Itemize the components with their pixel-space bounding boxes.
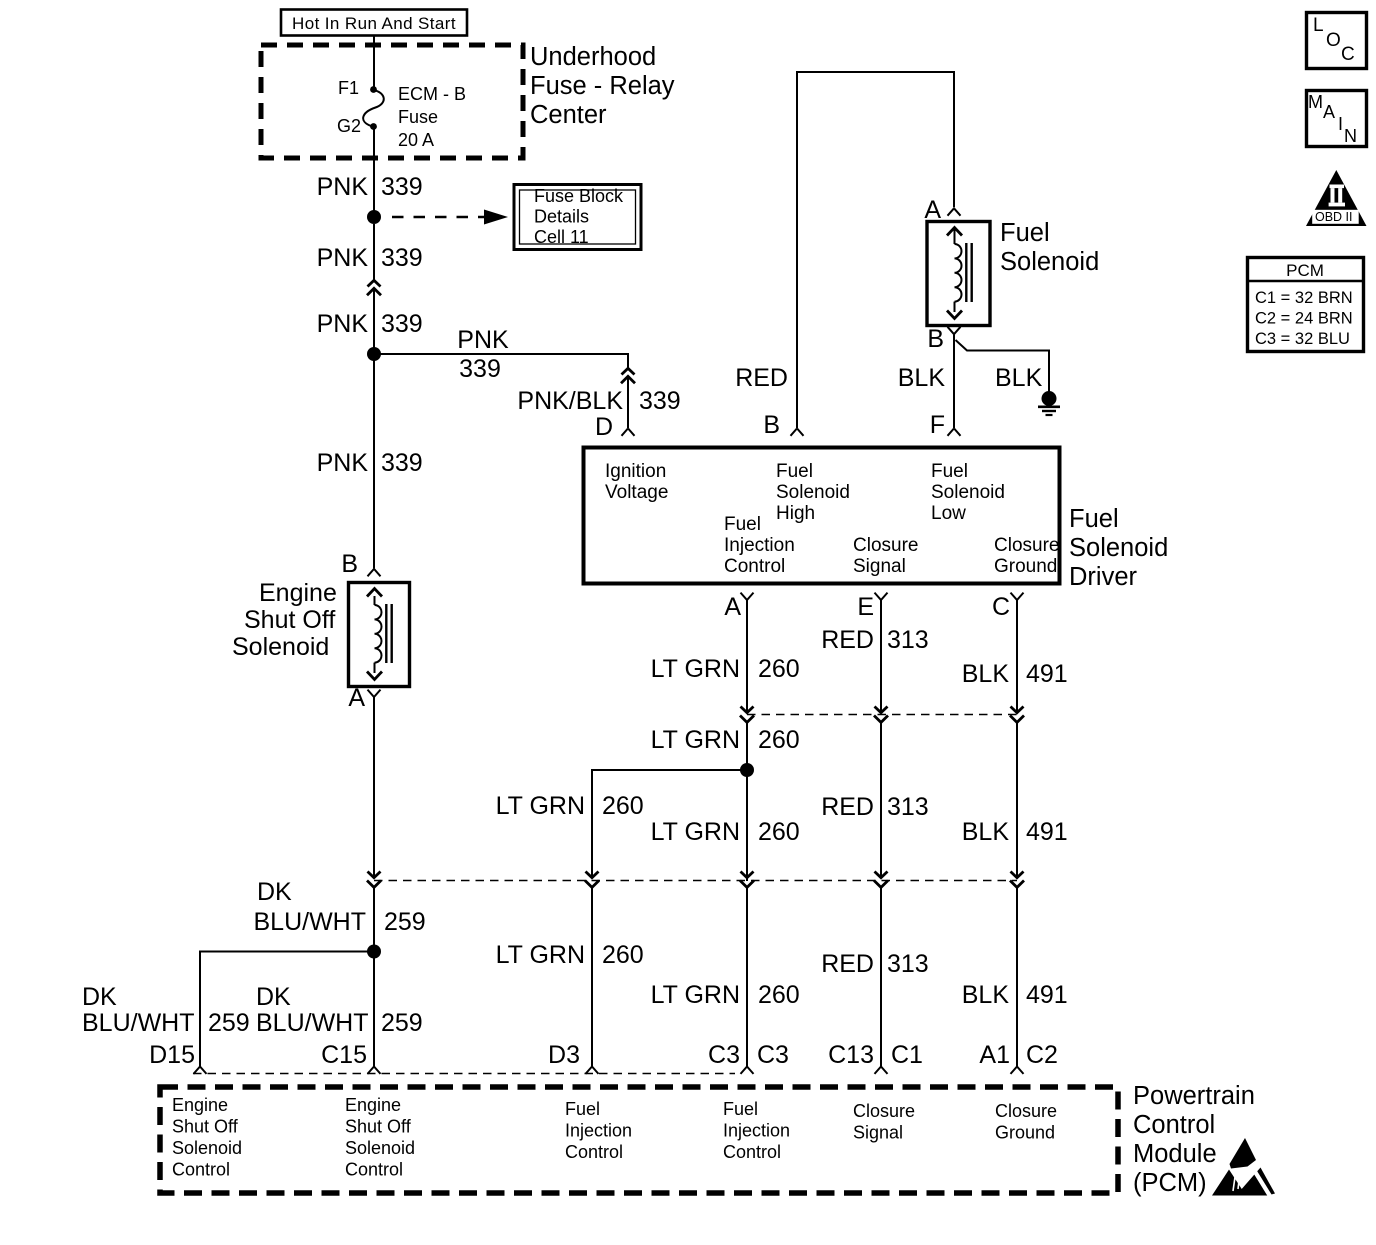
- svg-text:491: 491: [1026, 981, 1068, 1009]
- svg-text:BLU/WHT: BLU/WHT: [256, 1009, 369, 1037]
- value label DK BLU/WHT 259 (lower): [256, 983, 423, 1037]
- svg-text:Ignition: Ignition: [605, 461, 666, 482]
- svg-text:260: 260: [758, 981, 800, 1009]
- inline connector chevrons wire E: [874, 707, 888, 723]
- fuel solenoid FS1: [927, 222, 990, 326]
- svg-text:Ground: Ground: [994, 556, 1057, 577]
- node F1: [338, 78, 377, 98]
- inline connector chevrons wire DK BLU/WHT: [367, 872, 381, 888]
- svg-text:Solenoid: Solenoid: [931, 482, 1005, 503]
- pin E of fuel solenoid driver: [857, 593, 887, 621]
- svg-text:Engine: Engine: [172, 1095, 228, 1115]
- pin A of fuel solenoid driver: [724, 593, 753, 621]
- svg-text:Fuel: Fuel: [1000, 219, 1050, 247]
- value label BLK 491 (1): [962, 660, 1068, 688]
- label: Engine Shut Off Solenoid: [232, 579, 337, 661]
- svg-text:Signal: Signal: [853, 1123, 903, 1143]
- wire: LT GRN 260 branch to PCM pin D3 lower: [591, 887, 593, 1066]
- pins A1 C2 of PCM: [979, 1041, 1058, 1074]
- svg-text:260: 260: [602, 792, 644, 820]
- wire: DK BLU/WHT 259 branch to PCM pin D15: [200, 952, 374, 1067]
- label: Fuel Solenoid Low (pin F): [931, 461, 1005, 524]
- svg-text:339: 339: [459, 355, 501, 383]
- wire: BLK 491 driver pin C down: [1016, 600, 1018, 713]
- svg-text:DK: DK: [256, 983, 291, 1011]
- svg-text:BLK: BLK: [962, 981, 1010, 1009]
- svg-text:Solenoid: Solenoid: [232, 633, 329, 661]
- label: Closure Ground (pin C): [994, 535, 1059, 577]
- svg-text:PCM: PCM: [1286, 261, 1324, 280]
- svg-text:Fuse: Fuse: [398, 107, 438, 127]
- svg-text:Voltage: Voltage: [605, 482, 668, 503]
- underhood fuse-relay center dashed enclosure: [261, 45, 523, 158]
- svg-text:F: F: [930, 411, 945, 439]
- node: Fuse Block Details Cell 11 reference box: [514, 185, 641, 250]
- label: Fuel Solenoid Driver title: [1069, 505, 1168, 591]
- value label LT GRN 260 (4): [651, 981, 800, 1009]
- svg-text:PNK: PNK: [317, 173, 369, 201]
- value label LT GRN 260 (branch upper): [496, 792, 644, 820]
- svg-text:Center: Center: [530, 101, 607, 129]
- inline connector chevrons wire C: [1010, 707, 1024, 723]
- svg-text:G2: G2: [337, 116, 361, 136]
- svg-text:339: 339: [381, 173, 423, 201]
- wire: DK BLU/WHT 259 solenoid pin A down: [373, 697, 375, 878]
- svg-text:Fuse Block: Fuse Block: [534, 186, 624, 206]
- junction splice S3: [740, 763, 754, 777]
- pin A of fuel solenoid: [924, 196, 960, 224]
- svg-text:Fuel: Fuel: [931, 461, 968, 482]
- svg-text:LT GRN: LT GRN: [651, 981, 740, 1009]
- svg-text:RED: RED: [735, 364, 788, 392]
- svg-text:F1: F1: [338, 78, 359, 98]
- svg-text:20 A: 20 A: [398, 130, 434, 150]
- wire: LT GRN 260 driver pin A to inline connector C2: [746, 600, 748, 713]
- svg-text:LT GRN: LT GRN: [651, 726, 740, 754]
- wire: BLK branch to ground G101: [956, 340, 1050, 392]
- value label PNK 339 (4): [317, 449, 423, 477]
- svg-text:PNK/BLK: PNK/BLK: [517, 387, 623, 415]
- wire: DK BLU/WHT 259 to splice S4: [373, 887, 375, 1066]
- svg-text:A1: A1: [979, 1041, 1010, 1069]
- svg-text:259: 259: [208, 1009, 250, 1037]
- pin A of engine shut off solenoid: [348, 684, 380, 712]
- junction splice S4: [367, 945, 381, 959]
- wire: PNK 339 branch to fuel solenoid driver pin D: [374, 354, 628, 369]
- svg-text:BLK: BLK: [962, 818, 1010, 846]
- svg-text:BLU/WHT: BLU/WHT: [254, 908, 367, 936]
- inline connector chevrons wire C3: [740, 872, 754, 888]
- svg-text:A: A: [724, 593, 741, 621]
- svg-text:PNK: PNK: [317, 449, 369, 477]
- wire: PNK/BLK 339 into driver pin D: [627, 376, 629, 428]
- svg-text:D3: D3: [548, 1041, 580, 1069]
- svg-text:C1: C1: [891, 1041, 923, 1069]
- svg-text:Closure: Closure: [853, 535, 918, 556]
- value label LT GRN 260 (1): [651, 655, 800, 683]
- svg-text:DK: DK: [82, 983, 117, 1011]
- wire: LT GRN 260 to PCM pin C3: [746, 887, 748, 1066]
- wire: feed into fuse terminal F1: [373, 36, 375, 88]
- svg-text:DK: DK: [257, 878, 292, 906]
- svg-text:Shut Off: Shut Off: [172, 1117, 239, 1137]
- svg-text:Solenoid: Solenoid: [345, 1138, 415, 1158]
- svg-text:Control: Control: [172, 1160, 230, 1180]
- wire: LT GRN 260 to splice S3: [746, 722, 748, 881]
- svg-text:339: 339: [381, 449, 423, 477]
- svg-text:RED: RED: [821, 626, 874, 654]
- svg-text:N: N: [1344, 126, 1357, 146]
- label: Underhood Fuse-Relay Center: [530, 43, 675, 129]
- svg-text:BLK: BLK: [962, 660, 1010, 688]
- value label PNK 339 (1): [317, 173, 423, 201]
- value label LT GRN 260 (branch lower): [496, 941, 644, 969]
- svg-text:Solenoid: Solenoid: [1069, 534, 1168, 562]
- svg-text:Powertrain: Powertrain: [1133, 1082, 1255, 1110]
- svg-text:Control: Control: [723, 1142, 781, 1162]
- svg-text:339: 339: [381, 244, 423, 272]
- PCM connector face dashed line: [193, 1073, 735, 1075]
- label: Fuel Injection Control (pin A): [724, 514, 795, 577]
- svg-text:Low: Low: [931, 503, 966, 524]
- value label LT GRN 260 (2): [651, 726, 800, 754]
- svg-text:PNK: PNK: [317, 244, 369, 272]
- svg-text:C3 = 32 BLU: C3 = 32 BLU: [1255, 330, 1350, 348]
- reference icon LOC: [1307, 13, 1367, 69]
- svg-text:B: B: [763, 411, 780, 439]
- value label RED 313 (3): [821, 950, 929, 978]
- svg-text:Injection: Injection: [723, 1121, 790, 1141]
- svg-text:(PCM): (PCM): [1133, 1169, 1207, 1197]
- wire: RED 313 to PCM pin C1: [880, 887, 882, 1066]
- pin C15 of PCM: [321, 1041, 380, 1074]
- value label DK BLU/WHT 259 (branch): [82, 983, 250, 1037]
- svg-text:260: 260: [758, 655, 800, 683]
- svg-text:ECM - B: ECM - B: [398, 84, 466, 104]
- pin B of engine shut off solenoid: [341, 550, 380, 578]
- svg-text:Fuel: Fuel: [724, 514, 761, 535]
- svg-text:A: A: [1323, 102, 1335, 122]
- engine shut off solenoid SOL1: [349, 583, 410, 687]
- value label BLK 491 (3): [962, 981, 1068, 1009]
- label: Powertrain Control Module (PCM) title: [1133, 1082, 1255, 1197]
- svg-text:A: A: [348, 684, 365, 712]
- svg-text:D15: D15: [149, 1041, 195, 1069]
- label: Fuel Injection Control (D3): [565, 1099, 632, 1162]
- svg-text:BLU/WHT: BLU/WHT: [82, 1009, 195, 1037]
- svg-text:313: 313: [887, 793, 929, 821]
- label: Fuel Injection Control (C3): [723, 1099, 790, 1162]
- inline connector chevrons wire C2col: [1010, 872, 1024, 888]
- svg-text:260: 260: [758, 726, 800, 754]
- svg-text:PNK: PNK: [457, 326, 509, 354]
- svg-text:Engine: Engine: [259, 579, 337, 607]
- wire: PNK 339 from fuse to splice S1: [373, 127, 375, 217]
- svg-text:Control: Control: [565, 1142, 623, 1162]
- pin F of fuel solenoid driver: [930, 411, 961, 439]
- svg-text:259: 259: [384, 908, 426, 936]
- svg-text:Closure: Closure: [994, 535, 1059, 556]
- fuse ECM-B 20A: [363, 84, 466, 150]
- wire: RED 313 driver pin E down: [880, 600, 882, 713]
- label: Closure Signal (pin E): [853, 535, 918, 577]
- pin D15 of PCM: [149, 1041, 206, 1074]
- value label LT GRN 260 (3): [651, 818, 800, 846]
- svg-text:Shut Off: Shut Off: [244, 606, 335, 634]
- svg-text:259: 259: [381, 1009, 423, 1037]
- pin C of fuel solenoid driver: [992, 593, 1024, 621]
- svg-text:Fuel: Fuel: [776, 461, 813, 482]
- svg-text:Injection: Injection: [565, 1121, 632, 1141]
- svg-text:Solenoid: Solenoid: [1000, 248, 1099, 276]
- svg-text:Solenoid: Solenoid: [776, 482, 850, 503]
- svg-text:C3: C3: [708, 1041, 740, 1069]
- wire: RED 313 mid segment: [880, 722, 882, 877]
- svg-text:260: 260: [602, 941, 644, 969]
- pin B of fuel solenoid driver: [763, 411, 803, 439]
- node: Hot In Run And Start feed box: [281, 10, 467, 36]
- value label BLK 491 (2): [962, 818, 1068, 846]
- wire: PNK 339 splice S2 down to engine shut off solenoid: [373, 354, 375, 569]
- value label PNK 339 (3): [317, 310, 423, 338]
- svg-text:RED: RED: [821, 793, 874, 821]
- svg-text:491: 491: [1026, 818, 1068, 846]
- reference icon OBD II triangle: [1306, 170, 1367, 226]
- svg-text:L: L: [1313, 15, 1324, 36]
- inline connector chevrons wire C1: [874, 872, 888, 888]
- pins C3 C3 of PCM: [708, 1041, 789, 1074]
- inline connector chevrons on PNK/BLK branch: [621, 368, 635, 383]
- svg-text:Control: Control: [1133, 1111, 1215, 1139]
- svg-text:PNK: PNK: [317, 310, 369, 338]
- svg-text:LT GRN: LT GRN: [651, 818, 740, 846]
- value label PNK/BLK 339: [517, 387, 680, 415]
- svg-text:O: O: [1326, 30, 1341, 51]
- inline connector chevrons wire A: [740, 707, 754, 723]
- svg-text:M: M: [1308, 92, 1323, 112]
- junction splice S2: [367, 347, 381, 361]
- svg-text:Fuel: Fuel: [723, 1099, 758, 1119]
- svg-text:339: 339: [639, 387, 681, 415]
- wire: BLK 491 to PCM pin C2: [1016, 887, 1018, 1066]
- svg-text:Closure: Closure: [995, 1101, 1057, 1121]
- label: Engine Shut Off Solenoid Control (D15): [172, 1095, 242, 1180]
- svg-text:Hot In Run And Start: Hot In Run And Start: [292, 14, 456, 33]
- svg-text:Driver: Driver: [1069, 563, 1138, 591]
- svg-text:Closure: Closure: [853, 1101, 915, 1121]
- node G2: [337, 116, 377, 136]
- svg-text:BLK: BLK: [995, 364, 1043, 392]
- svg-text:Shut Off: Shut Off: [345, 1117, 412, 1137]
- svg-text:Module: Module: [1133, 1140, 1217, 1168]
- svg-text:High: High: [776, 503, 815, 524]
- wire: PNK 339 splice S1 to inline connector: [373, 224, 375, 281]
- wire: BLK from fuel solenoid pin B to driver pin F: [953, 334, 955, 428]
- svg-text:B: B: [927, 325, 944, 353]
- wire: BLK 491 mid segment: [1016, 722, 1018, 877]
- svg-text:C2: C2: [1026, 1041, 1058, 1069]
- junction splice S1: [367, 210, 381, 224]
- svg-text:E: E: [857, 593, 874, 621]
- svg-text:Underhood: Underhood: [530, 43, 656, 71]
- svg-text:Details: Details: [534, 207, 589, 227]
- svg-text:C15: C15: [321, 1041, 367, 1069]
- svg-text:Cell 11: Cell 11: [534, 227, 589, 247]
- svg-text:LT GRN: LT GRN: [496, 941, 585, 969]
- svg-text:C3: C3: [757, 1041, 789, 1069]
- inline connector chevrons on PNK wire: [367, 280, 381, 295]
- wire: LT GRN 260 branch to PCM pin D3: [592, 770, 747, 876]
- svg-text:Control: Control: [724, 556, 785, 577]
- reference icon MAIN: [1307, 91, 1367, 147]
- pin D3 of PCM: [548, 1041, 598, 1074]
- svg-text:I: I: [1338, 114, 1343, 134]
- label: Closure Ground (C2): [995, 1101, 1057, 1143]
- svg-text:Signal: Signal: [853, 556, 906, 577]
- label: Engine Shut Off Solenoid Control (C15): [345, 1095, 415, 1180]
- ground G101: [1038, 391, 1060, 415]
- svg-text:RED: RED: [821, 950, 874, 978]
- PCM connector legend table: [1247, 258, 1364, 352]
- svg-text:OBD II: OBD II: [1315, 210, 1353, 224]
- svg-text:Ground: Ground: [995, 1123, 1055, 1143]
- svg-text:C1 = 32 BRN: C1 = 32 BRN: [1255, 289, 1353, 307]
- wire: top bus from driver pin B to fuel solenoid pin A: [797, 72, 954, 428]
- svg-text:LT GRN: LT GRN: [496, 792, 585, 820]
- svg-text:BLK: BLK: [898, 364, 946, 392]
- svg-text:C2 = 24 BRN: C2 = 24 BRN: [1255, 310, 1353, 328]
- svg-text:C: C: [992, 593, 1010, 621]
- pins C13 C1 of PCM: [828, 1041, 923, 1074]
- inline connector C2 row (dashed): [747, 714, 1017, 716]
- svg-text:Fuse - Relay: Fuse - Relay: [530, 72, 675, 100]
- svg-text:Control: Control: [345, 1160, 403, 1180]
- svg-text:Solenoid: Solenoid: [172, 1138, 242, 1158]
- label: Fuel Solenoid: [1000, 219, 1099, 276]
- label: Ignition Voltage (pin D): [605, 461, 668, 503]
- svg-text:C: C: [1341, 44, 1355, 65]
- svg-text:B: B: [341, 550, 358, 578]
- svg-text:339: 339: [381, 310, 423, 338]
- pin B of fuel solenoid: [927, 325, 960, 353]
- PCM dashed enclosure: [160, 1087, 1118, 1193]
- label: Fuel Solenoid High (pin B): [776, 461, 850, 524]
- inline connector chevrons wire D3 branch: [585, 872, 599, 888]
- svg-text:313: 313: [887, 626, 929, 654]
- value label DK BLU/WHT 259 (upper): [254, 878, 426, 936]
- wire: PNK 339 inline connector to splice S2: [373, 288, 375, 354]
- icon: ESD sensitive symbol: [1212, 1166, 1275, 1196]
- svg-text:D: D: [595, 413, 613, 441]
- svg-text:Fuel: Fuel: [565, 1099, 600, 1119]
- pin D of fuel solenoid driver: [595, 413, 635, 441]
- inline connector C3 row (dashed): [374, 880, 1017, 882]
- dashed reference arrow to fuse block details: [392, 210, 508, 225]
- svg-text:491: 491: [1026, 660, 1068, 688]
- svg-text:Engine: Engine: [345, 1095, 401, 1115]
- svg-text:C13: C13: [828, 1041, 874, 1069]
- icon: serviceable-component triangle: [1230, 1138, 1257, 1169]
- value label RED 313 (1): [821, 626, 929, 654]
- label: Closure Signal (C1): [853, 1101, 915, 1143]
- svg-text:Injection: Injection: [724, 535, 795, 556]
- value label PNK 339 (2): [317, 244, 423, 272]
- svg-text:260: 260: [758, 818, 800, 846]
- svg-text:LT GRN: LT GRN: [651, 655, 740, 683]
- value label RED 313 (2): [821, 793, 929, 821]
- value label PNK 339 on branch: [457, 326, 509, 383]
- fuel solenoid driver module U1: [584, 448, 1060, 584]
- svg-text:313: 313: [887, 950, 929, 978]
- svg-text:Fuel: Fuel: [1069, 505, 1119, 533]
